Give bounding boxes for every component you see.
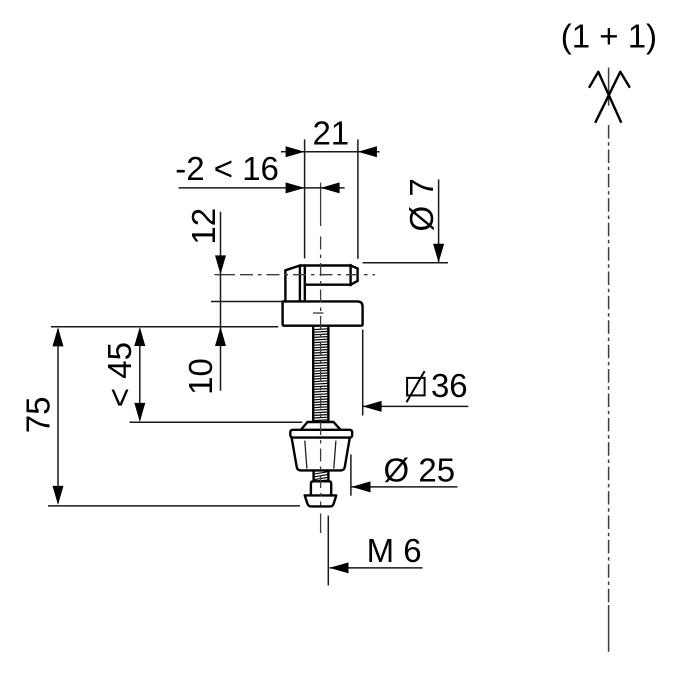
extension line right of 21	[357, 139, 359, 258]
svg-text:21: 21	[312, 115, 349, 152]
arrow down d7	[433, 244, 444, 263]
extension line foot bottom	[48, 505, 300, 507]
svg-text:12: 12	[185, 208, 222, 245]
dimension M6	[328, 516, 422, 586]
extension line flange bottom	[51, 326, 278, 328]
lower block	[311, 481, 331, 495]
svg-text:(1 + 1): (1 + 1)	[561, 18, 657, 55]
leader vertical line d7	[438, 179, 440, 262]
flange center tick	[313, 312, 324, 314]
pin horizontal centerline	[215, 274, 376, 276]
arrow left 21	[286, 146, 305, 157]
extension line d25	[350, 454, 352, 495]
rod thread hatching	[314, 329, 327, 421]
dimension 75	[20, 327, 301, 506]
leader horizontal line d7	[363, 262, 448, 264]
pin top edge	[300, 264, 351, 266]
svg-text:Ø 25: Ø 25	[384, 452, 456, 489]
knob cone right edge	[341, 438, 350, 471]
pin top slant left	[285, 266, 300, 271]
dimension line <45	[139, 329, 141, 420]
pin support left edge	[284, 270, 286, 301]
dimension line 75	[57, 329, 59, 503]
arrow up <45	[134, 327, 145, 346]
dimension 10	[182, 302, 283, 395]
svg-text:75: 75	[20, 397, 57, 434]
square symbol	[407, 378, 425, 396]
right centerline dash-dot	[608, 125, 610, 605]
arrow right 21	[358, 146, 377, 157]
arrow up 10	[215, 327, 226, 346]
extension line M6	[327, 516, 329, 586]
rod right edge	[327, 326, 329, 421]
stub thread hatching	[315, 472, 328, 481]
rod left edge	[312, 326, 314, 421]
break symbol zigzag A	[589, 72, 621, 123]
knob cone draft line left	[305, 441, 307, 469]
svg-text:< 45: < 45	[101, 342, 138, 407]
dimension diameter 7	[363, 178, 448, 263]
arrow up 75	[53, 327, 64, 346]
foot	[305, 495, 337, 506]
break symbol zigzag B	[595, 72, 630, 123]
dimension 21	[281, 115, 380, 259]
pin chamfer line	[349, 265, 351, 285]
pin groove line 1	[299, 266, 301, 302]
dimension line 21	[281, 151, 380, 153]
svg-text:Ø 7: Ø 7	[403, 178, 440, 231]
extension line right of flange	[362, 330, 364, 416]
dimension -2 < 16	[175, 150, 344, 193]
break symbol stem	[608, 68, 610, 106]
arrow left M6	[330, 562, 349, 573]
leader line 36	[363, 405, 469, 407]
extension line flange top	[211, 301, 283, 303]
leader line M6	[330, 567, 423, 569]
knob cone left edge	[292, 438, 301, 471]
knob rim band	[290, 430, 352, 438]
right centerline end dash	[608, 605, 610, 652]
svg-text:M 6: M 6	[367, 532, 422, 569]
knob cone bottom edge	[301, 469, 341, 471]
stub right edge	[327, 471, 329, 482]
vertical centerline of part	[320, 183, 322, 533]
svg-text:36: 36	[431, 367, 468, 404]
dimension 12	[185, 208, 226, 391]
arrow down 12	[215, 255, 226, 274]
transition collar	[301, 422, 340, 430]
svg-text:-2 < 16: -2 < 16	[175, 150, 279, 187]
arrow right -2<16	[321, 182, 340, 193]
pin tip chamfer top	[351, 266, 358, 269]
leader line d25	[352, 486, 458, 488]
dimension line -2<16	[179, 187, 345, 189]
arrow left 36	[363, 401, 382, 412]
stub left edge	[312, 471, 314, 482]
dimension square 36	[363, 330, 469, 416]
dimension diameter 25	[351, 452, 458, 496]
pin groove line 2	[304, 266, 306, 302]
square slash	[407, 371, 425, 402]
part outline group	[283, 265, 363, 507]
arrow down <45	[134, 403, 145, 422]
pin bottom edge	[305, 284, 351, 286]
extension line knob top	[130, 421, 303, 423]
arrow down 75	[53, 486, 64, 505]
flange	[283, 301, 363, 325]
pin tip face	[356, 269, 358, 281]
dimension line 12	[220, 212, 222, 391]
knob cone draft line right	[334, 441, 336, 469]
arrow left -2<16	[286, 182, 305, 193]
dimension < 45	[101, 327, 302, 422]
extension line left of 21	[304, 139, 306, 258]
svg-text:10: 10	[182, 358, 219, 395]
arrow left d25	[352, 481, 371, 492]
pin tip chamfer bottom	[351, 281, 358, 285]
